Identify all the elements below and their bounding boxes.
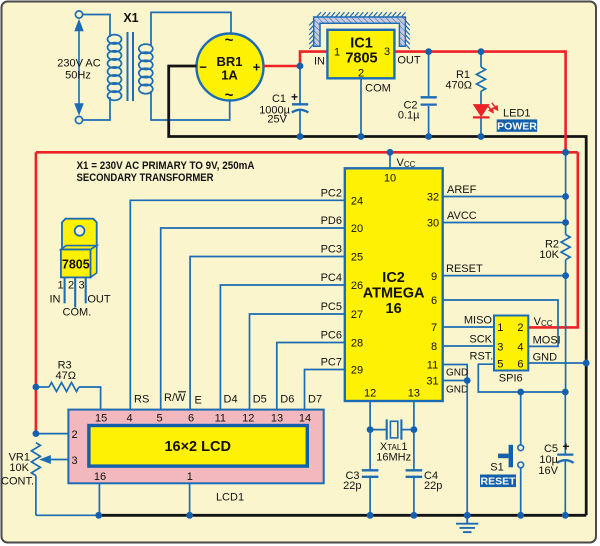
svg-text:LCD1: LCD1 (216, 492, 244, 504)
capacitor C5 (557, 392, 574, 515)
svg-text:GND: GND (533, 351, 558, 363)
svg-text:AREF: AREF (447, 184, 477, 196)
label box RESET (480, 475, 516, 488)
potentiometer VR1 (31, 443, 40, 476)
svg-text:3: 3 (71, 455, 77, 467)
wire: AVCC to +5V (443, 222, 566, 224)
connector SPI6 (494, 316, 528, 371)
wire: AREF to +5V (443, 196, 566, 198)
svg-text:2: 2 (68, 279, 74, 291)
wire: pin 6 to MOSI (443, 300, 558, 346)
svg-text:D6: D6 (280, 393, 294, 405)
crystal XTAL1 (370, 419, 414, 439)
svg-text:7: 7 (431, 322, 437, 334)
wire: black bottom ground bus (99, 514, 587, 517)
wire: LCD pin 1 to ground bus (189, 483, 191, 515)
wire: pin 8 SCK to SPI6 pin3 (443, 345, 494, 347)
wire: GND junction down to bottom bus (466, 381, 468, 516)
svg-text:ATMEGA: ATMEGA (363, 286, 425, 302)
svg-text:IC1: IC1 (350, 36, 373, 52)
wire: PC5 to LCD D5 (250, 314, 345, 410)
wire: pin 11 GND (443, 365, 468, 381)
svg-text:LED1: LED1 (503, 108, 531, 120)
capacitor C1 (292, 66, 309, 137)
wire: PC2 to LCD RS (130, 200, 344, 409)
svg-text:29: 29 (351, 365, 363, 377)
wire: RESET pin 9 (443, 275, 566, 277)
svg-text:16: 16 (94, 471, 106, 483)
svg-text:D5: D5 (253, 393, 267, 405)
svg-text:8: 8 (431, 341, 437, 353)
svg-text:3: 3 (384, 46, 390, 58)
svg-text:31: 31 (426, 376, 438, 388)
svg-text:11: 11 (427, 360, 438, 372)
svg-text:16: 16 (386, 301, 402, 317)
wire: red BR1 plus to node (264, 65, 301, 68)
wire: SPI6 pin6 GND to right ground bus (528, 362, 586, 364)
svg-text:47Ω: 47Ω (55, 370, 75, 382)
capacitor C3 (362, 430, 379, 516)
svg-text:PC7: PC7 (321, 357, 342, 369)
terminal: AC input top (75, 11, 82, 18)
svg-text:E: E (195, 394, 202, 406)
wire: red IC1 OUT to right, down to +5V rail (394, 52, 565, 153)
svg-text:16V: 16V (538, 465, 558, 477)
svg-text:4: 4 (517, 341, 523, 353)
svg-text:15: 15 (95, 412, 107, 424)
svg-text:5: 5 (497, 359, 503, 371)
svg-text:S1: S1 (490, 462, 503, 474)
svg-text:7805: 7805 (62, 258, 90, 272)
svg-text:9: 9 (431, 271, 437, 283)
svg-text:PC6: PC6 (321, 330, 342, 342)
svg-text:22p: 22p (424, 480, 442, 492)
svg-text:14: 14 (299, 412, 311, 424)
wire: node to LCD pin 2 (36, 433, 69, 435)
wire: PC4 to LCD D4 (220, 285, 344, 410)
LED1 (473, 103, 498, 118)
wire: VR1 bottom to ground (35, 476, 37, 516)
svg-text:10K: 10K (9, 462, 29, 474)
svg-text:2: 2 (358, 68, 364, 80)
svg-text:32: 32 (427, 192, 439, 204)
svg-text:230V AC: 230V AC (57, 58, 100, 70)
svg-text:10: 10 (384, 173, 396, 185)
svg-text:12: 12 (242, 412, 254, 424)
svg-text:C1: C1 (272, 93, 286, 105)
svg-text:1: 1 (57, 279, 63, 291)
svg-text:IC2: IC2 (382, 270, 405, 286)
svg-text:PC4: PC4 (321, 272, 342, 284)
terminal: AC input bottom (75, 116, 82, 123)
svg-text:~: ~ (225, 87, 234, 104)
wire: pin 13 down to crystal (413, 401, 415, 430)
svg-text:50Hz: 50Hz (65, 70, 91, 82)
svg-text:D7: D7 (308, 393, 322, 405)
svg-text:20: 20 (351, 223, 363, 235)
svg-text:R/W: R/W (164, 392, 186, 404)
wire: LCD pin 16 to ground bus (98, 483, 100, 515)
svg-text:MISO: MISO (464, 315, 493, 327)
wire: red node up to IC1 IN (300, 52, 327, 66)
svg-text:6: 6 (517, 359, 523, 371)
wire: AC bottom terminal to primary (83, 97, 110, 120)
svg-text:−: − (199, 60, 207, 75)
svg-text:GND: GND (446, 368, 468, 379)
svg-text:X1 = 230V AC PRIMARY TO 9V, 25: X1 = 230V AC PRIMARY TO 9V, 250mA (77, 160, 255, 172)
svg-text:COM.: COM. (63, 306, 92, 318)
svg-text:1: 1 (497, 322, 503, 334)
svg-text:6: 6 (188, 412, 194, 424)
svg-text:RST.: RST. (470, 351, 494, 363)
wire: secondary top to BR1 (151, 12, 231, 46)
svg-text:11: 11 (215, 412, 226, 424)
svg-text:26: 26 (351, 280, 363, 292)
svg-text:25: 25 (351, 252, 363, 264)
module LCD1 16x2 LCD (68, 410, 323, 484)
svg-text:X1: X1 (123, 11, 138, 25)
svg-text:4: 4 (127, 412, 133, 424)
svg-text:5: 5 (157, 412, 163, 424)
svg-text:27: 27 (351, 309, 363, 321)
package drawing 7805 TO-220 tab (62, 219, 97, 248)
wire: PC3 to LCD E (190, 257, 345, 410)
wire: red +5V rail (36, 151, 578, 154)
wire: pin 12 down to crystal (369, 401, 371, 430)
wire: secondary bottom to BR1 (151, 91, 230, 120)
svg-text:24: 24 (351, 195, 363, 207)
svg-text:IN: IN (50, 293, 61, 305)
svg-text:OUT: OUT (397, 55, 421, 67)
svg-text:25V: 25V (267, 114, 287, 126)
svg-text:470Ω: 470Ω (445, 80, 472, 92)
svg-text:OUT: OUT (87, 293, 111, 305)
svg-text:COM: COM (365, 83, 391, 95)
regulator IC1 7805 (327, 30, 394, 79)
wire: PC7 to LCD D7 (305, 370, 345, 410)
svg-text:3: 3 (497, 341, 503, 353)
svg-text:3: 3 (78, 279, 84, 291)
resistor R3 (36, 383, 101, 410)
arrow: AC voltage span (75, 21, 82, 114)
svg-text:CONT.: CONT. (1, 476, 34, 488)
wire: SPI6 pin5 RST to reset rail (478, 364, 565, 392)
svg-text:10K: 10K (539, 249, 559, 261)
svg-text:AVCC: AVCC (447, 210, 477, 222)
wire: PC6 to LCD D6 (277, 343, 345, 410)
ground symbol (456, 515, 478, 532)
svg-text:16MHz: 16MHz (376, 452, 411, 464)
svg-text:28: 28 (351, 338, 363, 350)
wire: +5V vertical to AREF/AVCC/R2 (565, 152, 567, 234)
resistor R2 (561, 235, 570, 260)
transformer X1 core (128, 32, 134, 101)
wire: red rail left drop to LCD pin2 node (35, 152, 38, 433)
svg-text:1A: 1A (221, 68, 238, 83)
wire: pin 31 GND (443, 380, 468, 382)
svg-text:+: + (253, 60, 261, 75)
wire: pin 7 MISO to SPI6 pin1 (443, 326, 494, 328)
svg-text:GND: GND (446, 384, 468, 395)
package drawing 7805 body (61, 246, 97, 250)
switch S1 (520, 392, 522, 515)
svg-text:POWER: POWER (497, 120, 537, 132)
svg-text:0.1µ: 0.1µ (398, 110, 420, 122)
svg-text:PD6: PD6 (321, 215, 342, 227)
svg-text:13: 13 (408, 388, 420, 400)
heatsink of IC1 (314, 17, 406, 46)
svg-text:SPI6: SPI6 (499, 373, 523, 385)
microcontroller IC2 ATMEGA16 (345, 168, 443, 401)
svg-text:22p: 22p (343, 480, 361, 492)
svg-text:2: 2 (517, 322, 523, 334)
svg-text:PC2: PC2 (321, 187, 342, 199)
capacitor C2 (421, 52, 437, 137)
wire: R2 bottom to RESET line and down to reset rail (565, 260, 567, 392)
package pins 1 2 3 (65, 277, 86, 307)
svg-text:7805: 7805 (345, 51, 377, 67)
label box POWER (497, 119, 538, 131)
resistor R1 (477, 52, 486, 137)
svg-text:PC3: PC3 (321, 244, 342, 256)
node Vcc tap on +5V rail (389, 152, 391, 168)
svg-text:SCK: SCK (469, 333, 492, 345)
svg-text:1: 1 (187, 471, 193, 483)
svg-text:MOSI: MOSI (533, 335, 561, 347)
capacitor C4 (406, 430, 423, 516)
svg-text:IN: IN (314, 56, 325, 68)
wire: red rail right drop to SPI6 VCC (528, 152, 578, 327)
svg-text:RS: RS (134, 393, 149, 405)
svg-text:+: + (291, 90, 298, 104)
svg-text:~: ~ (225, 32, 234, 49)
svg-text:2: 2 (71, 429, 77, 441)
wire: PD6 to LCD R/W (161, 228, 345, 410)
wire: AC top terminal to primary (83, 15, 110, 38)
svg-text:6: 6 (431, 295, 437, 307)
svg-text:+: + (563, 440, 570, 454)
transformer X1 secondary winding (139, 44, 153, 94)
svg-text:RESET: RESET (446, 263, 483, 275)
svg-text:D4: D4 (224, 393, 238, 405)
svg-text:13: 13 (271, 412, 283, 424)
svg-text:PC5: PC5 (321, 301, 342, 313)
svg-text:12: 12 (364, 388, 376, 400)
svg-text:1: 1 (334, 47, 340, 59)
bridge rectifier BR1 (197, 34, 264, 101)
svg-text:30: 30 (427, 218, 439, 230)
wire: black ground bus from BR1 minus (left, top, right side) (169, 66, 587, 515)
svg-text:RESET: RESET (480, 476, 516, 488)
wire: ground bus blue segment bottom-left (36, 514, 99, 516)
svg-text:16×2 LCD: 16×2 LCD (164, 439, 231, 455)
transformer X1 primary winding (108, 35, 122, 101)
wire: IC1 COM to ground bus (360, 78, 362, 136)
svg-text:SECONDARY TRANSFORMER: SECONDARY TRANSFORMER (77, 172, 214, 184)
